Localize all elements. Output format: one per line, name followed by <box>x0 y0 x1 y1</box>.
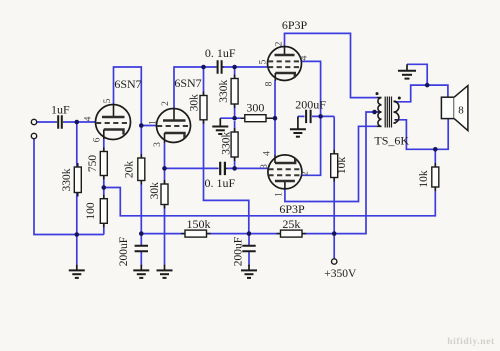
svg-text:8: 8 <box>458 105 464 117</box>
pin 1 of V4 <box>275 192 285 197</box>
label V3 6P3P <box>282 18 308 32</box>
resistor R8 330k <box>231 128 238 161</box>
node dot cathode bus <box>273 116 278 121</box>
svg-text:100: 100 <box>85 202 97 220</box>
input terminal top <box>31 119 36 124</box>
svg-text:300: 300 <box>246 101 264 115</box>
svg-text:150k: 150k <box>187 217 211 231</box>
label R3 100 <box>85 202 97 220</box>
label C4 200uF <box>118 237 130 266</box>
label R10 150k <box>187 217 211 231</box>
resistor R9 300 <box>241 115 275 122</box>
svg-text:6: 6 <box>93 137 103 142</box>
svg-text:1: 1 <box>275 192 285 197</box>
svg-text:6P3P: 6P3P <box>279 202 305 216</box>
tube V4 6P3P pentode <box>268 155 302 189</box>
svg-text:2: 2 <box>275 41 285 46</box>
svg-text:25k: 25k <box>282 217 300 231</box>
svg-text:5: 5 <box>259 59 269 64</box>
wire V2 cathode node right through C3 to V4 grid <box>165 167 269 169</box>
wire C3 node up through R8 <box>234 121 236 168</box>
svg-text:6P3P: 6P3P <box>282 18 308 32</box>
wire V2 cathode down through R6 to ground <box>164 143 166 266</box>
node dot ground rail R1 <box>75 232 80 237</box>
svg-text:0. 1uF: 0. 1uF <box>205 46 236 60</box>
label C3 0.1uF <box>204 176 235 190</box>
wire screen node horizontal through C6 <box>298 115 334 117</box>
svg-text:3: 3 <box>153 142 163 147</box>
ground G1 input <box>69 265 85 278</box>
capacitor C1 1uF <box>56 115 64 128</box>
wire V1 cathode through R2 R3 to ground rail <box>103 139 105 235</box>
svg-text:200uF: 200uF <box>118 237 130 266</box>
svg-text:20k: 20k <box>124 161 136 179</box>
wire V3 plate to transformer primary top <box>285 33 378 97</box>
label C1 1uF <box>51 103 70 117</box>
label +350V <box>324 268 357 280</box>
svg-text:+350V: +350V <box>324 268 357 280</box>
label R5 30k <box>189 94 201 112</box>
terminal +350V <box>332 259 337 264</box>
transformer primary phase dot <box>376 92 379 95</box>
svg-text:1: 1 <box>149 120 159 125</box>
pin 3 of V4 <box>260 164 270 169</box>
capacitor C2 0.1uF <box>216 60 224 73</box>
wire 200uF C5 branch to ground <box>248 234 250 266</box>
resistor R4 20k <box>138 154 145 185</box>
label R4 20k <box>124 161 136 179</box>
wire R7 330k upper from plate rail to bias node <box>234 67 236 118</box>
ground G2 under C4 <box>133 265 149 278</box>
label V1 6SN7 <box>114 77 141 91</box>
input terminal bottom <box>31 133 36 138</box>
svg-text:8: 8 <box>265 81 275 86</box>
svg-text:330k: 330k <box>221 132 233 155</box>
resistor R7 330k <box>231 75 238 109</box>
pin 4 of V4 <box>263 151 273 156</box>
pin 6 of V1 <box>93 137 103 142</box>
svg-text:2: 2 <box>301 171 311 176</box>
node dot bias junction <box>232 116 237 121</box>
resistor R12 10k <box>331 150 338 182</box>
wire screen node vertical to V3 and V4 screens <box>302 61 321 175</box>
label C5 200uF <box>233 237 245 266</box>
wire plate node down through R4 to B+ rail <box>140 126 142 234</box>
label transformer TS_6K <box>374 134 409 148</box>
resistor R5 30k <box>200 92 207 124</box>
pin 2 of V3 <box>275 41 285 46</box>
pin 8 of V3 <box>265 81 275 86</box>
resistor R11 25k <box>277 230 307 237</box>
svg-text:330k: 330k <box>218 80 230 103</box>
wire cathode bus V3 V4 through node <box>274 81 276 156</box>
svg-text:6SN7: 6SN7 <box>114 77 141 91</box>
tube V1 6SN7 triode <box>96 104 131 139</box>
node dot transformer center tap <box>372 110 377 115</box>
wire secondary ground stub <box>407 64 427 85</box>
ground G4 under C5 <box>241 265 257 278</box>
svg-text:10k: 10k <box>336 157 348 175</box>
tube V2 6SN7 triode <box>157 108 191 143</box>
capacitor C6 200uF <box>306 110 311 123</box>
label C6 200uF <box>295 97 326 111</box>
svg-text:4: 4 <box>300 55 310 60</box>
ground G6 screen bypass <box>290 116 306 136</box>
svg-text:6SN7: 6SN7 <box>174 76 201 90</box>
node dot V2 grid <box>139 123 144 128</box>
resistor R13 10k <box>432 163 439 191</box>
wire V1 plate up over and down to V2 grid <box>114 67 157 126</box>
wire input ground down and along bottom ground rail <box>34 139 104 235</box>
wire V4 plate to transformer primary bottom <box>285 126 378 201</box>
label R6 30k <box>149 182 161 200</box>
label V4 6P3P <box>279 202 305 216</box>
wire feedback from cathode junction to R13 <box>104 149 436 216</box>
label speaker 8 ohm <box>458 105 464 117</box>
resistor R1 330k <box>74 163 81 197</box>
label V2 6SN7 <box>174 76 201 90</box>
capacitor C3 0.1uF <box>218 162 228 175</box>
wire secondary top to speaker and ground <box>395 85 448 102</box>
ground G7 speaker <box>398 64 416 78</box>
wire B plus rail <box>141 112 377 234</box>
tube V3 6P3P pentode <box>268 47 302 81</box>
svg-text:hifidiy.net: hifidiy.net <box>447 337 495 347</box>
wire R5 30k plate load down to B+ node <box>204 67 249 234</box>
pin 3 of V2 <box>153 142 163 147</box>
capacitor C5 200uF <box>242 246 255 251</box>
node dot speaker top <box>425 83 430 88</box>
wire bias node to ground symbol G5 <box>220 117 241 119</box>
pin 5 of V1 <box>103 98 113 103</box>
svg-text:30k: 30k <box>149 182 161 200</box>
resistor R10 150k <box>181 230 211 237</box>
label R8 330k <box>221 132 233 155</box>
node dot plate rail R7 <box>232 65 237 70</box>
svg-text:750: 750 <box>87 155 99 173</box>
wire secondary bottom to speaker bottom <box>395 119 449 150</box>
wire screen feed R12 down to B+ and 350V terminal <box>333 116 335 258</box>
svg-text:200uF: 200uF <box>233 237 245 266</box>
speaker LS1 <box>441 86 468 131</box>
transformer secondary phase dot <box>398 97 401 100</box>
pin 4 of V1 <box>84 116 94 121</box>
svg-text:TS_6K: TS_6K <box>374 134 409 148</box>
watermark hifidiy.net <box>447 337 495 347</box>
node dot B+ rail center <box>247 231 252 236</box>
label R7 330k <box>218 80 230 103</box>
node dot speaker bottom feedback <box>433 147 438 152</box>
node dot V2 cathode <box>162 166 167 171</box>
svg-text:1uF: 1uF <box>51 103 70 117</box>
svg-text:0. 1uF: 0. 1uF <box>204 176 235 190</box>
wire ground rail junction to ground symbol <box>76 235 78 266</box>
node dot C3 V4 grid <box>232 166 237 171</box>
svg-text:4: 4 <box>84 116 94 121</box>
node dot V1 grid <box>75 120 80 125</box>
pin 4 of V3 <box>300 55 310 60</box>
wire grid node down through R1 to ground rail <box>76 122 78 235</box>
label R2 750 <box>87 155 99 173</box>
svg-text:4: 4 <box>263 151 273 156</box>
svg-text:5: 5 <box>103 98 113 103</box>
resistor R6 30k <box>161 180 168 209</box>
label R9 300 <box>246 101 264 115</box>
node dot B+ rail 350V <box>332 231 337 236</box>
resistor R3 100 <box>100 195 107 228</box>
label R13 10k <box>418 170 430 188</box>
capacitor C4 200uF <box>135 246 148 251</box>
label R11 25k <box>282 217 300 231</box>
svg-text:200uF: 200uF <box>295 97 326 111</box>
svg-text:30k: 30k <box>189 94 201 112</box>
transformer core <box>385 97 391 128</box>
label R12 10k <box>336 157 348 175</box>
wire 1uF to tube V1 grid node <box>64 121 96 123</box>
node dot V1 cathode feedback <box>102 185 107 190</box>
resistor R2 750 <box>100 148 107 180</box>
svg-text:330k: 330k <box>61 168 73 191</box>
ground G5 bias node <box>212 118 228 134</box>
pin 5 of V3 <box>259 59 269 64</box>
transformer T1 TS_6K primary winding <box>377 98 381 127</box>
ground G3 under R6 <box>157 265 173 278</box>
node dot B+ rail left <box>139 231 144 236</box>
wire 200uF C4 branch to ground <box>140 234 142 266</box>
pin 1 of V2 <box>149 120 159 125</box>
wire V2 plate rail to C2 and V3 grid <box>174 67 268 109</box>
svg-text:10k: 10k <box>418 170 430 188</box>
pin 2 of V4 <box>301 171 311 176</box>
pin 2 of V2 <box>161 101 171 106</box>
svg-text:3: 3 <box>260 164 270 169</box>
node dot plate rail R5 <box>201 65 206 70</box>
transformer secondary winding <box>394 101 399 123</box>
node dot screen node <box>318 114 323 119</box>
label C2 0.1uF <box>205 46 236 60</box>
label R1 330k <box>61 168 73 191</box>
wire input signal to 1uF <box>37 121 56 123</box>
svg-text:2: 2 <box>161 101 171 106</box>
